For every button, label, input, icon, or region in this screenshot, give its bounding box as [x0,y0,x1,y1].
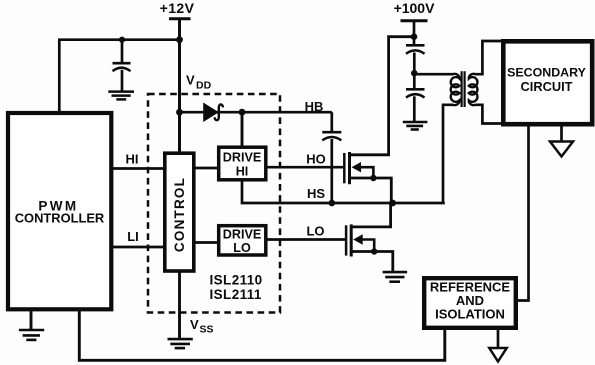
svg-text:ISL2111: ISL2111 [210,287,262,302]
svg-text:ISOLATION: ISOLATION [435,307,505,322]
capacitor C1 (12V decoupling) [113,40,131,91]
ground G4 (VSS) [168,339,193,348]
svg-text:HS: HS [307,186,325,201]
wire secondary top lead [475,41,503,74]
transformer T1 secondary winding [469,74,478,105]
wire VSS from CONTROL bottom to ground [178,271,181,339]
svg-text:HO: HO [306,152,326,167]
svg-text:DD: DD [196,80,212,92]
svg-text:+100V: +100V [394,0,436,16]
ground G5 under M2 [383,272,408,282]
wire LI [111,246,164,249]
svg-text:HB: HB [305,99,324,114]
wire HI [111,167,164,170]
node dot between caps [411,70,418,77]
node dot HS mosfet [389,200,396,207]
capacitor C3 (100V top) [406,45,425,89]
wire junction to DRIVE HI top [241,112,244,148]
svg-text:LO: LO [233,241,251,255]
wire down into PWM top [58,40,61,112]
transformer T1 primary winding [451,74,460,105]
svg-text:SS: SS [200,324,214,336]
+100V supply rail bar [401,19,428,22]
wire secondary box to reference box [517,124,529,301]
svg-text:DRIVE: DRIVE [223,151,262,165]
wire CONTROL to DRIVE LO [194,241,219,244]
diode D1 (bootstrap schottky) [204,104,217,121]
node dot 100V [411,33,418,40]
capacitor C2 bootstrap [322,112,341,203]
node dot M2 source [371,248,377,254]
SECONDARY CIRCUIT box [503,41,592,124]
svg-text:V: V [190,317,199,332]
svg-text:ISL2110: ISL2110 [210,273,263,288]
chassis arrow A2 under reference box [497,328,500,348]
DRIVE HI block [219,147,266,180]
wire HS from DRIVE HI bottom to transformer [242,180,445,203]
capacitor C4 (100V bottom) [406,89,425,121]
wire CONTROL to DRIVE HI [194,167,219,170]
svg-text:DRIVE: DRIVE [223,228,262,242]
arrow body M2 [353,234,363,244]
svg-text:CONTROL: CONTROL [172,177,187,252]
svg-text:V: V [186,73,195,88]
wire LO to M2 gate [266,238,346,241]
svg-text:HI: HI [126,152,139,167]
node dot M1 source [370,175,376,181]
ground G2 under PWM [19,309,44,340]
svg-text:CIRCUIT: CIRCUIT [521,79,573,94]
chassis arrow A1 under secondary box [560,126,563,142]
node junction dot 12V rail [176,36,183,43]
transformer T1 core [461,71,463,107]
node VDD junction dot [176,109,183,116]
arrow body M1 [352,162,362,172]
wire PWM bottom to bottom bus [79,309,445,360]
REFERENCE AND ISOLATION box [424,278,516,328]
node junction dot cap tap [119,37,125,43]
svg-text:LI: LI [127,229,139,244]
wire primary bottom lead [443,105,453,203]
dashed boundary box ISL2110 [148,94,280,313]
svg-text:LO: LO [306,224,324,239]
wire VDD to HB (diode row) [180,111,332,114]
transistor M1 high-side MOSFET [344,37,414,203]
svg-text:HI: HI [236,165,249,179]
wire VDD vertical from +12V bar to CONTROL top [178,19,181,153]
wire 12V rail horizontal to PWM [58,38,180,41]
CONTROL block [165,153,194,271]
transistor M2 low-side MOSFET [346,203,393,271]
svg-text:+12V: +12V [160,0,195,16]
DRIVE LO block [219,226,266,255]
wire HO to M1 gate [266,166,345,169]
PWM controller box U2 [8,113,111,309]
node junction dot after diode [239,109,246,116]
+12V supply rail bar [169,17,191,20]
ground G3 under caps [403,122,428,130]
ground G1 under C1 [108,92,134,100]
wire primary top lead [414,73,453,76]
node dot HS bootstrap [329,200,336,207]
wire +100V stem [413,21,416,45]
wire secondary bottom lead [475,105,503,124]
svg-text:CONTROLLER: CONTROLLER [15,211,105,226]
svg-text:SECONDARY: SECONDARY [507,66,586,80]
